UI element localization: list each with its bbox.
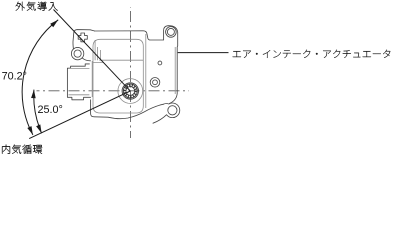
label inside-air recirc <box>2 145 42 154</box>
top-left flange outline <box>73 30 95 61</box>
svg-text:70.2°: 70.2° <box>2 70 27 82</box>
label air intake actuator <box>233 50 391 58</box>
mid double circle inner <box>153 80 158 85</box>
left and bottom edge of housing <box>91 100 164 119</box>
svg-text:25.0°: 25.0° <box>38 104 63 116</box>
ring around output shaft <box>118 79 143 104</box>
mid double circle outer <box>150 78 160 88</box>
upper-left boss inner circle <box>71 47 83 59</box>
small hole right side <box>158 61 162 65</box>
arrowhead big arc lower <box>27 126 33 135</box>
tab hole inner circle <box>166 27 177 38</box>
horizontal centerline <box>37 7 190 138</box>
cross-shaped cutout <box>78 33 87 42</box>
vertical centerline <box>130 7 132 138</box>
spline teeth <box>124 84 138 98</box>
arrowhead big arc upper <box>27 20 58 135</box>
actuator housing top edge and right edge with mounting tab <box>67 26 179 124</box>
right inner seam near corner <box>145 34 147 108</box>
housing lid seam rounded rectangle <box>93 39 143 113</box>
arc 25.0 deg <box>34 90 42 134</box>
fresh-air position line <box>54 10 131 92</box>
inner seam lines <box>69 34 176 113</box>
right edge inner seam <box>174 47 176 94</box>
lid step seam line <box>99 59 143 61</box>
bottom-right boss hole <box>168 106 177 115</box>
dimension geometry <box>22 10 228 139</box>
body edge behind connector <box>91 61 93 97</box>
arrowhead small arc lower <box>36 124 42 133</box>
arc 70.2 deg <box>22 20 58 135</box>
arrowhead small arc upper <box>31 90 36 99</box>
label outside-air intro <box>16 2 58 11</box>
bottom-right mounting boss <box>153 103 180 123</box>
recirculation position line <box>29 91 130 139</box>
connector block <box>67 64 90 100</box>
left seam verticals <box>93 40 104 62</box>
connector seam lines <box>69 68 90 94</box>
pivot spline shaft <box>122 83 138 99</box>
leader line to label <box>178 52 229 54</box>
